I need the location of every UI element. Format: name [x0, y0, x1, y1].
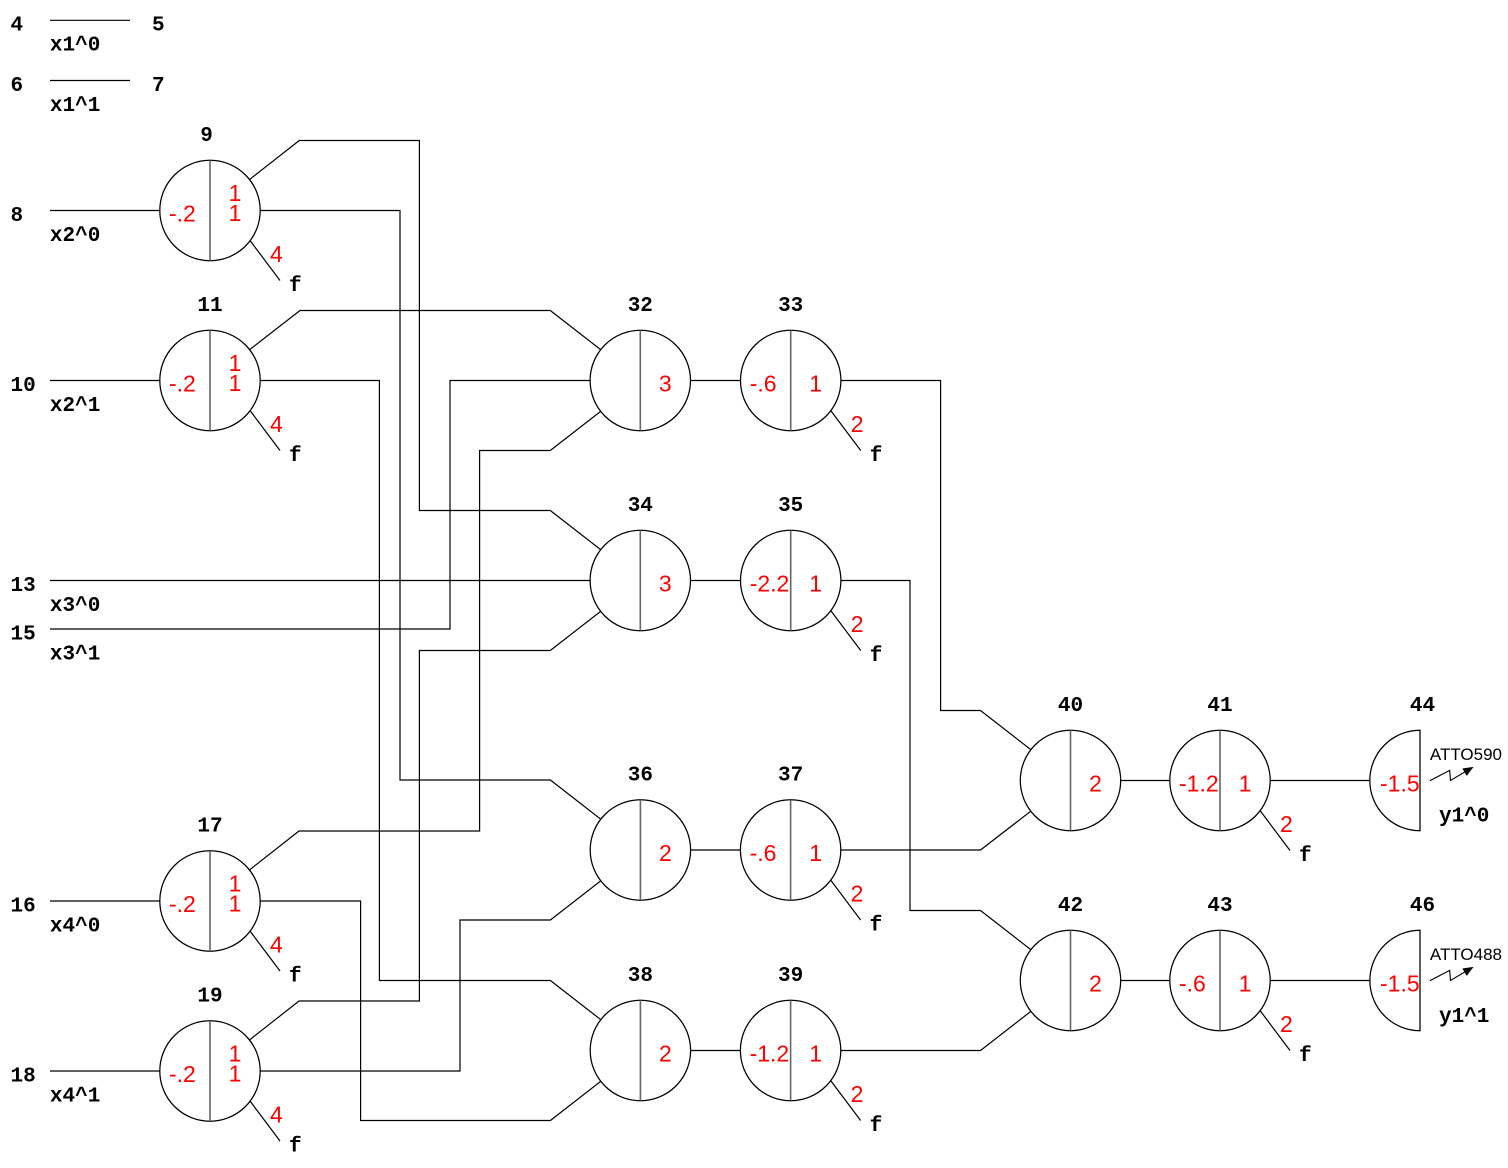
svg-text:-1.2: -1.2: [1179, 771, 1219, 797]
svg-text:x3^0: x3^0: [50, 595, 100, 618]
svg-text:42: 42: [1058, 895, 1083, 918]
activation line f of node 19: [250, 1101, 280, 1141]
svg-text:1: 1: [809, 1041, 822, 1067]
output half-disk node 44: [1370, 730, 1420, 830]
svg-text:f: f: [1299, 1045, 1312, 1068]
svg-text:x4^0: x4^0: [50, 916, 100, 939]
svg-text:-1.2: -1.2: [750, 1041, 790, 1067]
neuron circle node 37: [740, 800, 840, 900]
svg-text:f: f: [289, 275, 302, 298]
svg-text:16: 16: [11, 896, 36, 919]
neuron circle node 36: [590, 800, 690, 900]
input stub x1^0 (4-5) wire: [50, 19, 130, 21]
activation line f of node 17: [250, 931, 280, 971]
svg-text:37: 37: [778, 765, 803, 788]
svg-text:3: 3: [659, 371, 672, 397]
svg-text:-2.2: -2.2: [750, 571, 790, 597]
input 10 wire (x2^1): [50, 380, 210, 382]
svg-text:1: 1: [229, 200, 242, 226]
input 13 wire (x3^0) to node 34: [50, 580, 640, 582]
svg-text:x2^1: x2^1: [50, 395, 100, 418]
svg-text:43: 43: [1207, 895, 1232, 918]
neuron circle node 11: [160, 330, 260, 430]
svg-text:x2^0: x2^0: [50, 225, 100, 248]
svg-text:39: 39: [778, 965, 803, 988]
svg-text:2: 2: [659, 1041, 672, 1067]
svg-text:f: f: [870, 645, 883, 668]
zigzag arrow node 44: [1430, 768, 1472, 781]
svg-text:-1.5: -1.5: [1380, 971, 1420, 997]
wire node 17 to node 32: [210, 381, 640, 902]
wire node 40 to node 41: [1071, 780, 1221, 782]
svg-text:1: 1: [1239, 971, 1252, 997]
svg-text:5: 5: [152, 15, 165, 38]
svg-text:17: 17: [197, 816, 222, 839]
svg-text:ATTO488: ATTO488: [1430, 945, 1502, 964]
activation line f of node 37: [831, 880, 861, 920]
svg-text:2: 2: [851, 880, 864, 906]
input 18 wire (x4^1): [50, 1070, 210, 1072]
wire node 43 to node 46: [1220, 980, 1420, 982]
svg-text:4: 4: [270, 931, 283, 957]
svg-text:11: 11: [197, 295, 222, 318]
svg-text:38: 38: [628, 965, 653, 988]
neuron circle node 19: [160, 1021, 260, 1121]
svg-text:y1^0: y1^0: [1439, 806, 1489, 829]
svg-text:7: 7: [152, 75, 165, 98]
activation line f of node 33: [831, 411, 861, 451]
svg-text:4: 4: [11, 15, 24, 38]
weights 1,1 of node 19: [229, 1041, 242, 1087]
svg-text:-.6: -.6: [750, 840, 777, 866]
svg-text:3: 3: [659, 571, 672, 597]
wire node 32 to node 33: [640, 380, 790, 382]
svg-text:1: 1: [809, 371, 822, 397]
input 8 wire (x2^0): [50, 210, 210, 212]
svg-text:-.2: -.2: [169, 1061, 196, 1087]
svg-text:6: 6: [11, 75, 24, 98]
input 16 wire (x4^0): [50, 900, 210, 902]
svg-text:-.2: -.2: [169, 201, 196, 227]
weights 1,1 of node 9: [229, 180, 242, 226]
activation line f of node 11: [250, 411, 280, 451]
svg-text:-.2: -.2: [169, 371, 196, 397]
svg-text:34: 34: [628, 495, 653, 518]
wire node 33 to node 40: [791, 381, 1071, 781]
svg-text:f: f: [289, 965, 302, 988]
wire node 19 to node 36: [210, 850, 640, 1071]
svg-text:y1^1: y1^1: [1439, 1006, 1489, 1029]
activation line f of node 39: [831, 1081, 861, 1121]
svg-text:x3^1: x3^1: [50, 644, 100, 667]
svg-text:1: 1: [229, 891, 242, 917]
svg-text:-.2: -.2: [169, 891, 196, 917]
svg-text:f: f: [870, 1115, 883, 1138]
svg-text:-.6: -.6: [1179, 971, 1206, 997]
wire node 11 to node 38: [210, 381, 640, 1051]
svg-text:18: 18: [11, 1066, 36, 1089]
neuron circle node 43: [1170, 930, 1270, 1030]
svg-text:ATTO590: ATTO590: [1430, 745, 1502, 764]
svg-text:33: 33: [778, 295, 803, 318]
input 15 wire (x3^1) to node 32: [50, 381, 640, 630]
activation line f of node 43: [1260, 1011, 1290, 1051]
svg-text:f: f: [289, 445, 302, 468]
svg-text:1: 1: [229, 370, 242, 396]
zigzag arrow node 46: [1430, 968, 1472, 981]
svg-text:2: 2: [851, 611, 864, 637]
svg-text:f: f: [870, 445, 883, 468]
svg-text:1: 1: [809, 840, 822, 866]
wire node 42 to node 43: [1071, 980, 1221, 982]
activation line f of node 35: [831, 611, 861, 651]
svg-text:-1.5: -1.5: [1380, 771, 1420, 797]
wire node 37 to node 40: [791, 781, 1071, 851]
svg-text:9: 9: [200, 125, 213, 148]
neuron circle node 9: [160, 160, 260, 260]
svg-text:2: 2: [1280, 1011, 1293, 1037]
svg-text:2: 2: [1089, 971, 1102, 997]
weights 1,1 of node 11: [229, 350, 242, 396]
svg-text:36: 36: [628, 765, 653, 788]
svg-text:19: 19: [197, 986, 222, 1009]
wire node 36 to node 37: [640, 849, 790, 851]
wire node 17 to node 38: [210, 901, 640, 1121]
svg-text:f: f: [289, 1135, 302, 1158]
neuron circle node 39: [740, 1000, 840, 1100]
svg-text:8: 8: [11, 205, 24, 228]
svg-text:1: 1: [809, 571, 822, 597]
input stub x1^1 (6-7) wire: [50, 80, 130, 82]
svg-text:4: 4: [270, 241, 283, 267]
output half-disk node 46: [1370, 930, 1420, 1030]
svg-text:2: 2: [1089, 771, 1102, 797]
wire node 9 to node 36: [210, 211, 640, 851]
neuron circle node 40: [1020, 730, 1120, 830]
wire node 19 to node 34: [210, 581, 640, 1072]
activation line f of node 41: [1260, 811, 1290, 851]
svg-text:x1^0: x1^0: [50, 35, 100, 58]
svg-text:x4^1: x4^1: [50, 1086, 100, 1109]
svg-text:4: 4: [270, 1101, 283, 1127]
svg-text:44: 44: [1410, 695, 1435, 718]
svg-text:2: 2: [1280, 811, 1293, 837]
svg-text:x1^1: x1^1: [50, 95, 100, 118]
wire node 35 to node 42: [791, 581, 1071, 981]
weights 1,1 of node 17: [229, 871, 242, 917]
wire node 34 to node 35: [640, 580, 790, 582]
neuron circle node 17: [160, 851, 260, 951]
neuron circle node 35: [741, 530, 841, 630]
neuron circle node 33: [741, 330, 841, 430]
neuron circle node 38: [590, 1000, 690, 1100]
activation line f of node 9: [250, 241, 280, 281]
wire node 11 to node 32: [210, 311, 640, 381]
svg-text:13: 13: [11, 575, 36, 598]
svg-text:40: 40: [1058, 695, 1083, 718]
svg-text:-.6: -.6: [750, 371, 777, 397]
svg-text:10: 10: [11, 375, 36, 398]
svg-text:f: f: [1299, 845, 1312, 868]
neuron circle node 34: [590, 530, 690, 630]
wire node 39 to node 42: [791, 981, 1071, 1051]
neuron circle node 41: [1170, 730, 1270, 830]
wire node 38 to node 39: [640, 1050, 790, 1052]
wire node 9 to node 34: [210, 141, 640, 581]
svg-text:2: 2: [659, 840, 672, 866]
svg-text:f: f: [870, 914, 883, 937]
svg-text:4: 4: [270, 411, 283, 437]
svg-text:1: 1: [1239, 771, 1252, 797]
svg-text:2: 2: [851, 1081, 864, 1107]
svg-text:32: 32: [628, 295, 653, 318]
svg-text:15: 15: [11, 624, 36, 647]
svg-text:1: 1: [229, 1061, 242, 1087]
svg-text:2: 2: [851, 411, 864, 437]
neuron circle node 32: [590, 330, 690, 430]
svg-text:35: 35: [778, 495, 803, 518]
neuron circle node 42: [1020, 930, 1120, 1030]
svg-text:46: 46: [1410, 895, 1435, 918]
svg-text:41: 41: [1207, 695, 1232, 718]
wire node 41 to node 44: [1220, 780, 1420, 782]
